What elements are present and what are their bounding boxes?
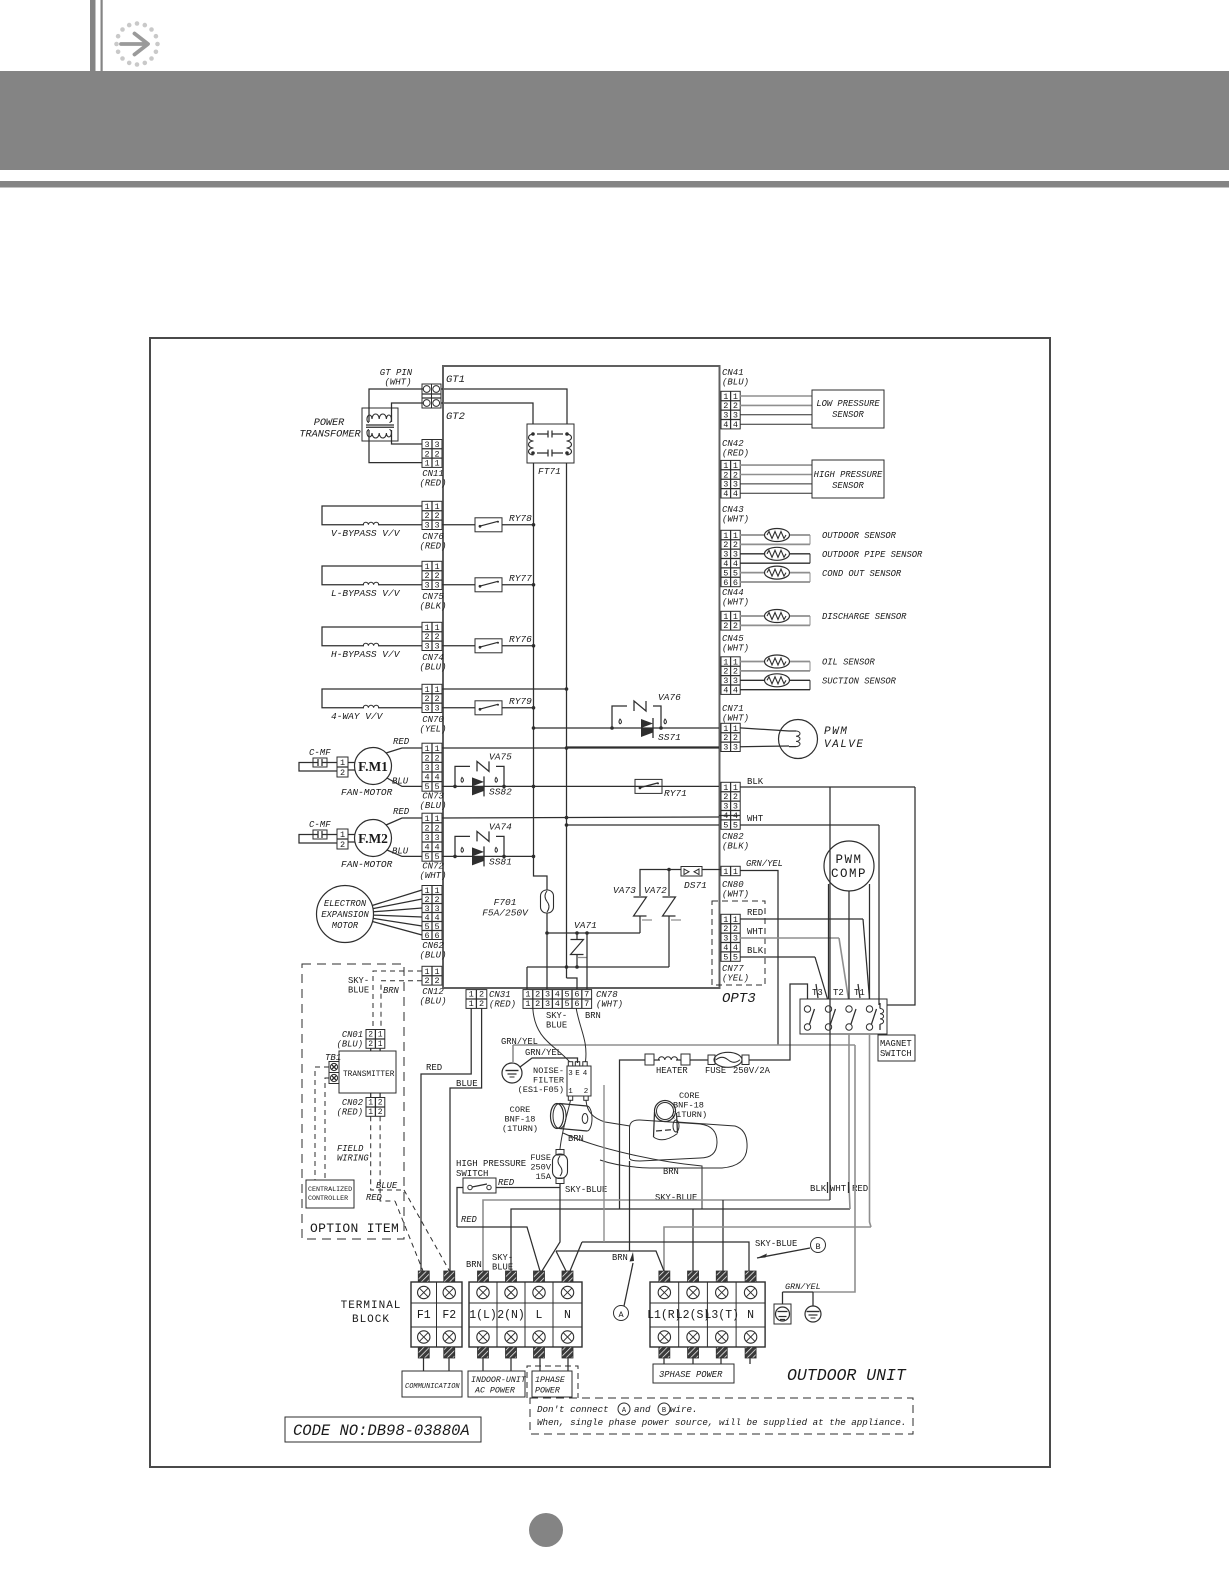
power transformer T1 [299, 408, 398, 441]
dashed drop to F2 [404, 1190, 450, 1271]
wire heater to magnet T3 [749, 984, 808, 1060]
svg-text:VALVE: VALVE [824, 739, 865, 751]
svg-text:4: 4 [434, 843, 439, 853]
svg-text:6: 6 [574, 999, 579, 1009]
svg-text:SKY-: SKY- [348, 976, 369, 986]
node GT2 label [446, 411, 465, 423]
fuse 250V 15A [530, 1150, 567, 1184]
wire WHT CN82 row5 [565, 823, 719, 827]
svg-text:and: and [634, 1404, 651, 1415]
svg-text:RY76: RY76 [509, 634, 532, 645]
core BNF-18 no.2 [654, 1091, 708, 1140]
connector CN77 (YEL) [722, 964, 749, 984]
wire GT pin to transformer primary [369, 389, 423, 422]
svg-text:EXPANSION: EXPANSION [321, 910, 369, 920]
wire E pin to ground [520, 1058, 578, 1067]
fan motor F.M1 [341, 748, 393, 799]
svg-text:F1: F1 [417, 1309, 431, 1322]
svg-text:5: 5 [565, 990, 570, 1000]
svg-text:2: 2 [479, 999, 484, 1009]
svg-text:(BLK): (BLK) [722, 842, 749, 852]
sensor outdoor [740, 529, 897, 545]
svg-text:(YEL): (YEL) [722, 974, 749, 984]
dashed drop to F1 [395, 1201, 423, 1271]
wire WHT down to coil [878, 825, 880, 1005]
note dashed box [530, 1398, 913, 1434]
wires F1 F2 to communication [424, 1358, 450, 1371]
svg-text:SKY-BLUE: SKY-BLUE [565, 1185, 607, 1195]
terminal block power 1L 2N L N [469, 1271, 582, 1358]
svg-text:BRN: BRN [585, 1011, 601, 1021]
dashed wire BRN to CN01 [381, 981, 422, 1029]
svg-text:WHT: WHT [830, 1184, 847, 1194]
svg-text:A: A [618, 1310, 624, 1320]
sensor cond out [740, 566, 902, 582]
svg-text:CN80: CN80 [722, 880, 744, 890]
svg-text:2: 2 [584, 1088, 589, 1096]
svg-text:BLOCK: BLOCK [352, 1314, 390, 1326]
wire VA71 top rail [547, 931, 640, 935]
wire RED switch left leg [457, 1188, 478, 1228]
capacitor C-MF of F.M2 [299, 820, 337, 843]
compressor PWM COMP [824, 841, 874, 891]
svg-text:V-BYPASS V/V: V-BYPASS V/V [331, 528, 401, 539]
label SKY-BLUE near B [755, 1239, 797, 1249]
svg-text:OPTION ITEM: OPTION ITEM [310, 1221, 399, 1236]
svg-text:4-WAY V/V: 4-WAY V/V [331, 711, 384, 722]
line filter FT71 [527, 424, 574, 477]
wire CN78 pin1 drop [526, 967, 528, 989]
svg-text:BLUE: BLUE [456, 1079, 478, 1089]
svg-text:(WHT): (WHT) [722, 515, 749, 525]
wire branch to L2 tab [692, 1209, 694, 1271]
svg-text:RED: RED [393, 807, 410, 817]
wire BLK drop from magnet [829, 787, 831, 1200]
svg-text:3: 3 [434, 763, 439, 773]
dashed box OPT3 [712, 901, 765, 1007]
wire switch to fuse bottom [496, 1178, 560, 1188]
svg-text:SKY-: SKY- [492, 1253, 513, 1263]
svg-text:OIL SENSOR: OIL SENSOR [822, 658, 876, 668]
relay RY77 [442, 573, 535, 592]
svg-text:TRANSMITTER: TRANSMITTER [343, 1071, 395, 1079]
svg-text:(BLU): (BLU) [419, 662, 446, 672]
svg-text:SENSOR: SENSOR [832, 410, 864, 420]
svg-text:DISCHARGE SENSOR: DISCHARGE SENSOR [822, 612, 907, 622]
wires CN42 to high pressure sensor [740, 465, 812, 493]
main PCB outline [443, 366, 720, 988]
svg-text:WIRING: WIRING [337, 1154, 369, 1164]
wire BLUE CN31 to F2 [450, 1008, 482, 1271]
svg-text:POWER: POWER [314, 418, 345, 429]
wire SKY-BLUE 2N to WHT junction [492, 1209, 850, 1273]
svg-text:B: B [662, 1407, 666, 1415]
svg-text:CN70: CN70 [422, 715, 444, 725]
connector CN42 (RED) [721, 439, 749, 499]
valve V-BYPASS V/V [322, 506, 422, 539]
svg-text:HIGH PRESSURE: HIGH PRESSURE [814, 470, 883, 480]
svg-text:1: 1 [340, 830, 345, 840]
valve 4-WAY V/V [322, 689, 422, 722]
arrester VA73 [613, 885, 652, 933]
relay RY78 [442, 513, 535, 532]
electron expansion motor [317, 886, 374, 943]
wire BLK from CN82 [740, 777, 915, 787]
svg-text:SENSOR: SENSOR [832, 481, 864, 491]
svg-text:1: 1 [469, 990, 474, 1000]
svg-text:(BLU): (BLU) [722, 378, 749, 388]
wire RED magnet to L1 [664, 1227, 871, 1271]
svg-text:RY77: RY77 [509, 573, 532, 584]
svg-text:3: 3 [434, 642, 439, 652]
wire BRN CN78 pin6 to filter pin4 [576, 1008, 586, 1061]
wire PCB to FT71 right [444, 389, 567, 424]
svg-text:PWM: PWM [824, 726, 848, 738]
wire WHT from CN82 row5 [740, 814, 879, 825]
svg-text:1: 1 [424, 814, 429, 824]
wire GRN/YEL from CN80 [740, 859, 783, 1045]
svg-text:(BLK): (BLK) [419, 601, 446, 611]
noise filter box [518, 1062, 591, 1101]
svg-text:2: 2 [535, 999, 540, 1009]
svg-text:2: 2 [424, 823, 429, 833]
label SKY-BLUE mid [655, 1193, 697, 1203]
terminal block 3phase [647, 1271, 765, 1358]
magnet switch box [800, 999, 887, 1034]
dashed box around 1phase [527, 1366, 578, 1398]
low pressure sensor box [812, 390, 884, 428]
svg-text:FT71: FT71 [538, 466, 561, 477]
svg-text:4: 4 [555, 999, 560, 1009]
wire RED CN31 to F1 [421, 1008, 471, 1271]
svg-text:4: 4 [723, 489, 728, 499]
wire GRN/YEL rail [513, 1045, 855, 1062]
svg-text:(1TURN): (1TURN) [502, 1124, 538, 1134]
svg-text:C-MF: C-MF [309, 748, 331, 758]
wire CN70 pin1 to bus [442, 687, 568, 691]
wire GRN/YEL drop right [813, 1045, 855, 1292]
sidebar double rule top-left [90, 0, 103, 71]
header divider rule [0, 181, 1229, 188]
svg-text:1PHASE: 1PHASE [535, 1376, 566, 1385]
svg-text:3: 3 [424, 704, 429, 714]
wire CN82 row4 stub [719, 815, 740, 817]
connector CN78 (WHT) [523, 990, 623, 1010]
svg-text:3: 3 [424, 763, 429, 773]
svg-text:3: 3 [545, 999, 550, 1009]
svg-text:BLUE: BLUE [348, 986, 369, 996]
label SKY-BLUE under CN78 [546, 1011, 567, 1031]
bus wire from FT71 right leg [566, 463, 568, 978]
wires to indoor unit box [483, 1358, 511, 1371]
connector CN11 (RED) [419, 440, 446, 489]
svg-text:CODE NO:DB98-03880A: CODE NO:DB98-03880A [293, 1422, 470, 1440]
svg-text:5: 5 [723, 952, 728, 962]
svg-text:(RED): (RED) [337, 1108, 363, 1118]
connector CN80 (WHT) [721, 866, 749, 899]
svg-text:(BLU): (BLU) [337, 1040, 363, 1050]
svg-text:SUCTION SENSOR: SUCTION SENSOR [822, 677, 897, 687]
svg-text:B: B [815, 1242, 820, 1252]
connector GT PIN (WHT) [380, 368, 441, 408]
header gray band [0, 71, 1229, 170]
svg-text:(WHT): (WHT) [596, 1000, 623, 1010]
svg-text:2: 2 [340, 768, 345, 778]
wire branch to L3 tab [722, 1200, 724, 1271]
wire VA71 bottom rail [527, 965, 669, 969]
communication box [402, 1371, 462, 1397]
connector CN76 (RED) [419, 501, 446, 551]
connector 1/2 of F.M1 [337, 757, 355, 778]
diagram outer frame [150, 338, 1050, 1467]
terminal block F1 F2 [411, 1271, 462, 1358]
triac SS82 [453, 776, 512, 797]
svg-text:RED: RED [366, 1193, 383, 1203]
svg-text:3: 3 [434, 704, 439, 714]
svg-text:RY78: RY78 [509, 513, 532, 524]
svg-text:BLK: BLK [747, 946, 764, 956]
svg-text:POWER: POWER [535, 1387, 560, 1396]
svg-text:6: 6 [723, 578, 728, 588]
svg-text:RY71: RY71 [664, 788, 687, 799]
wire BRN loop A [630, 1120, 718, 1161]
svg-text:When, single phase power sourc: When, single phase power source, will be… [537, 1417, 906, 1428]
svg-text:5: 5 [565, 999, 570, 1009]
svg-text:4: 4 [583, 1070, 588, 1078]
svg-text:Don't connect: Don't connect [537, 1404, 609, 1415]
svg-text:BLU: BLU [392, 776, 409, 786]
svg-text:2: 2 [424, 753, 429, 763]
svg-text:250V: 250V [530, 1163, 551, 1173]
svg-text:WHT: WHT [747, 927, 764, 937]
relay RY79 [442, 696, 535, 715]
svg-text:2: 2 [340, 840, 345, 850]
svg-text:2: 2 [434, 976, 439, 986]
core BNF-18 no.1 [502, 1104, 592, 1135]
wire BRN rail to L1 tab [556, 1251, 664, 1271]
connector CN41 (BLU) [721, 368, 749, 430]
svg-text:2: 2 [535, 990, 540, 1000]
svg-text:1: 1 [434, 459, 439, 469]
svg-text:BNF-18: BNF-18 [673, 1101, 704, 1111]
svg-text:(RED): (RED) [419, 541, 446, 551]
wire transformer secondary to CN11 [369, 430, 422, 463]
svg-text:CN11: CN11 [422, 469, 444, 479]
svg-text:BLUE: BLUE [546, 1021, 567, 1031]
svg-text:HIGH PRESSURE: HIGH PRESSURE [456, 1159, 526, 1169]
svg-text:CN76: CN76 [422, 532, 444, 542]
svg-text:3: 3 [733, 743, 738, 753]
svg-text:3: 3 [723, 743, 728, 753]
svg-text:AC POWER: AC POWER [474, 1387, 515, 1396]
svg-text:BLU: BLU [392, 846, 409, 856]
svg-text:6: 6 [574, 990, 579, 1000]
svg-text:RED: RED [747, 908, 763, 918]
ground lug in box [774, 1304, 791, 1324]
3phase power box [653, 1364, 734, 1383]
svg-text:1: 1 [424, 459, 429, 469]
svg-text:F.M2: F.M2 [358, 831, 388, 846]
svg-text:WHT: WHT [747, 814, 764, 824]
svg-text:BRN: BRN [612, 1253, 628, 1263]
connector CN82 (BLK) [721, 782, 749, 851]
svg-text:CN41: CN41 [722, 368, 744, 378]
svg-text:1: 1 [568, 1088, 573, 1096]
svg-text:1(L): 1(L) [469, 1309, 497, 1322]
svg-text:7: 7 [584, 990, 589, 1000]
wire BRN long sweep [563, 1133, 702, 1209]
svg-text:GT1: GT1 [446, 374, 465, 386]
wire CN72 row5 rail [442, 855, 535, 859]
svg-text:CN42: CN42 [722, 439, 744, 449]
wire RED F.M2 [386, 807, 422, 825]
wire WHT to magnet T2 [740, 927, 849, 999]
svg-text:(WHT): (WHT) [419, 871, 446, 881]
wire CN73 row1 to CN71 row3 [442, 746, 719, 750]
svg-text:(YEL): (YEL) [419, 724, 446, 734]
svg-text:1: 1 [368, 1099, 373, 1108]
svg-text:4: 4 [723, 686, 728, 696]
wire SKY-BLUE N to 3phase N [570, 1242, 749, 1271]
wires PWM COMP to magnet switch [829, 884, 870, 999]
svg-text:1: 1 [340, 758, 345, 768]
svg-text:CN02: CN02 [342, 1098, 363, 1108]
svg-text:GT PIN: GT PIN [380, 368, 413, 378]
PWM valve [740, 720, 865, 759]
fuse F701 [482, 890, 553, 919]
connector CN02 (RED) [337, 1093, 385, 1118]
svg-text:T2: T2 [833, 988, 844, 998]
svg-text:N: N [564, 1309, 571, 1322]
svg-text:1: 1 [723, 867, 728, 877]
svg-text:BRN: BRN [466, 1260, 482, 1270]
svg-text:wire.: wire. [670, 1404, 698, 1415]
varistor VA75 [455, 751, 512, 786]
svg-text:L-BYPASS V/V: L-BYPASS V/V [331, 588, 401, 599]
svg-text:6: 6 [434, 931, 439, 941]
wires to 1phase box [540, 1358, 568, 1371]
high pressure sensor box [812, 460, 884, 498]
dashed wire BLUE from CN02 [371, 1116, 404, 1191]
svg-text:SKY-: SKY- [546, 1011, 567, 1021]
svg-text:2: 2 [434, 823, 439, 833]
svg-text:1: 1 [378, 1031, 383, 1040]
connector CN70 (YEL) [419, 684, 446, 734]
svg-text:(WHT): (WHT) [722, 890, 749, 900]
svg-text:1: 1 [368, 1108, 373, 1117]
fan motor F.M2 [341, 820, 393, 871]
svg-text:BLUE: BLUE [376, 1181, 398, 1191]
svg-text:RED: RED [426, 1063, 442, 1073]
svg-text:(RED): (RED) [489, 1000, 516, 1010]
valve L-BYPASS V/V [322, 566, 422, 599]
svg-text:(WHT): (WHT) [722, 714, 749, 724]
svg-text:GT2: GT2 [446, 411, 465, 423]
node GT1 label [446, 374, 465, 386]
svg-text:BRN: BRN [663, 1167, 679, 1177]
label GRN/YEL bottom [783, 1282, 821, 1306]
svg-text:GRN/YEL: GRN/YEL [785, 1282, 821, 1292]
svg-text:4: 4 [723, 420, 728, 430]
1phase power box [532, 1371, 572, 1397]
svg-text:5: 5 [723, 820, 728, 830]
wire CN73 row5 rail [442, 785, 719, 789]
svg-text:(BLU): (BLU) [419, 801, 446, 811]
centralized controller box [306, 1180, 354, 1208]
wire RED to magnet T1 [740, 908, 870, 999]
wire BRN 1L to BLK junction [466, 1200, 830, 1271]
svg-text:TERMINAL: TERMINAL [341, 1300, 402, 1312]
svg-text:E: E [575, 1070, 580, 1078]
svg-text:2: 2 [723, 621, 728, 631]
magnet switch label box [878, 787, 915, 1061]
relay RY71 [635, 779, 687, 799]
dashed box OPTION ITEM [302, 964, 404, 1239]
svg-text:NOISE-: NOISE- [533, 1066, 564, 1076]
wire SS81 rail jog to fuse [534, 858, 548, 890]
svg-text:3: 3 [434, 833, 439, 843]
callout circle A [612, 1252, 634, 1321]
svg-text:L: L [536, 1309, 543, 1322]
svg-text:1: 1 [378, 1040, 383, 1049]
wire filter pin1 through core to fuse [560, 1100, 571, 1149]
svg-text:2: 2 [378, 1099, 383, 1108]
svg-text:1: 1 [733, 867, 738, 877]
svg-text:H-BYPASS V/V: H-BYPASS V/V [331, 649, 401, 660]
svg-text:MAGNET: MAGNET [880, 1039, 912, 1049]
wire SKY-BLUE CN78 pin2 to filter pin3 [533, 1008, 570, 1061]
svg-text:PWM: PWM [835, 853, 862, 867]
svg-text:C-MF: C-MF [309, 820, 331, 830]
svg-text:SWITCH: SWITCH [880, 1049, 912, 1059]
svg-text:4: 4 [434, 773, 439, 783]
svg-text:2: 2 [378, 1108, 383, 1117]
svg-text:FILTER: FILTER [533, 1076, 564, 1086]
capacitor C-MF of F.M1 [299, 748, 337, 771]
dashed wire RED from CN02 [366, 1116, 395, 1203]
callout circle B [757, 1238, 826, 1259]
label TERMINAL BLOCK [341, 1300, 402, 1326]
svg-text:(BLU): (BLU) [419, 997, 446, 1007]
svg-text:FUSE: FUSE [530, 1153, 551, 1163]
svg-text:3: 3 [424, 833, 429, 843]
earth ground symbol [502, 1063, 522, 1083]
sensor outdoor pipe [740, 547, 923, 563]
triac SS71 [610, 718, 681, 743]
svg-text:3PHASE POWER: 3PHASE POWER [659, 1370, 723, 1380]
label OUTDOOR UNIT [787, 1366, 907, 1385]
svg-text:N: N [747, 1309, 754, 1322]
svg-text:5: 5 [733, 952, 738, 962]
svg-text:LOW PRESSURE: LOW PRESSURE [816, 399, 880, 409]
svg-text:F701: F701 [494, 897, 517, 908]
svg-text:(RED): (RED) [722, 449, 749, 459]
svg-text:3: 3 [424, 581, 429, 591]
svg-text:(BLU): (BLU) [419, 951, 446, 961]
connector CN73 (BLU) [419, 743, 446, 811]
svg-text:FAN-MOTOR: FAN-MOTOR [341, 787, 393, 798]
svg-text:4: 4 [733, 420, 738, 430]
wire RED F.M1 [386, 737, 422, 753]
labels T3 T2 T1 [812, 984, 865, 998]
svg-text:OUTDOOR UNIT: OUTDOOR UNIT [787, 1366, 907, 1385]
triac SS81 [453, 846, 512, 867]
svg-text:CN44: CN44 [722, 588, 744, 598]
svg-text:3: 3 [434, 521, 439, 531]
relay RY76 [442, 634, 535, 653]
svg-text:(WHT): (WHT) [722, 644, 749, 654]
svg-text:CN12: CN12 [422, 987, 444, 997]
